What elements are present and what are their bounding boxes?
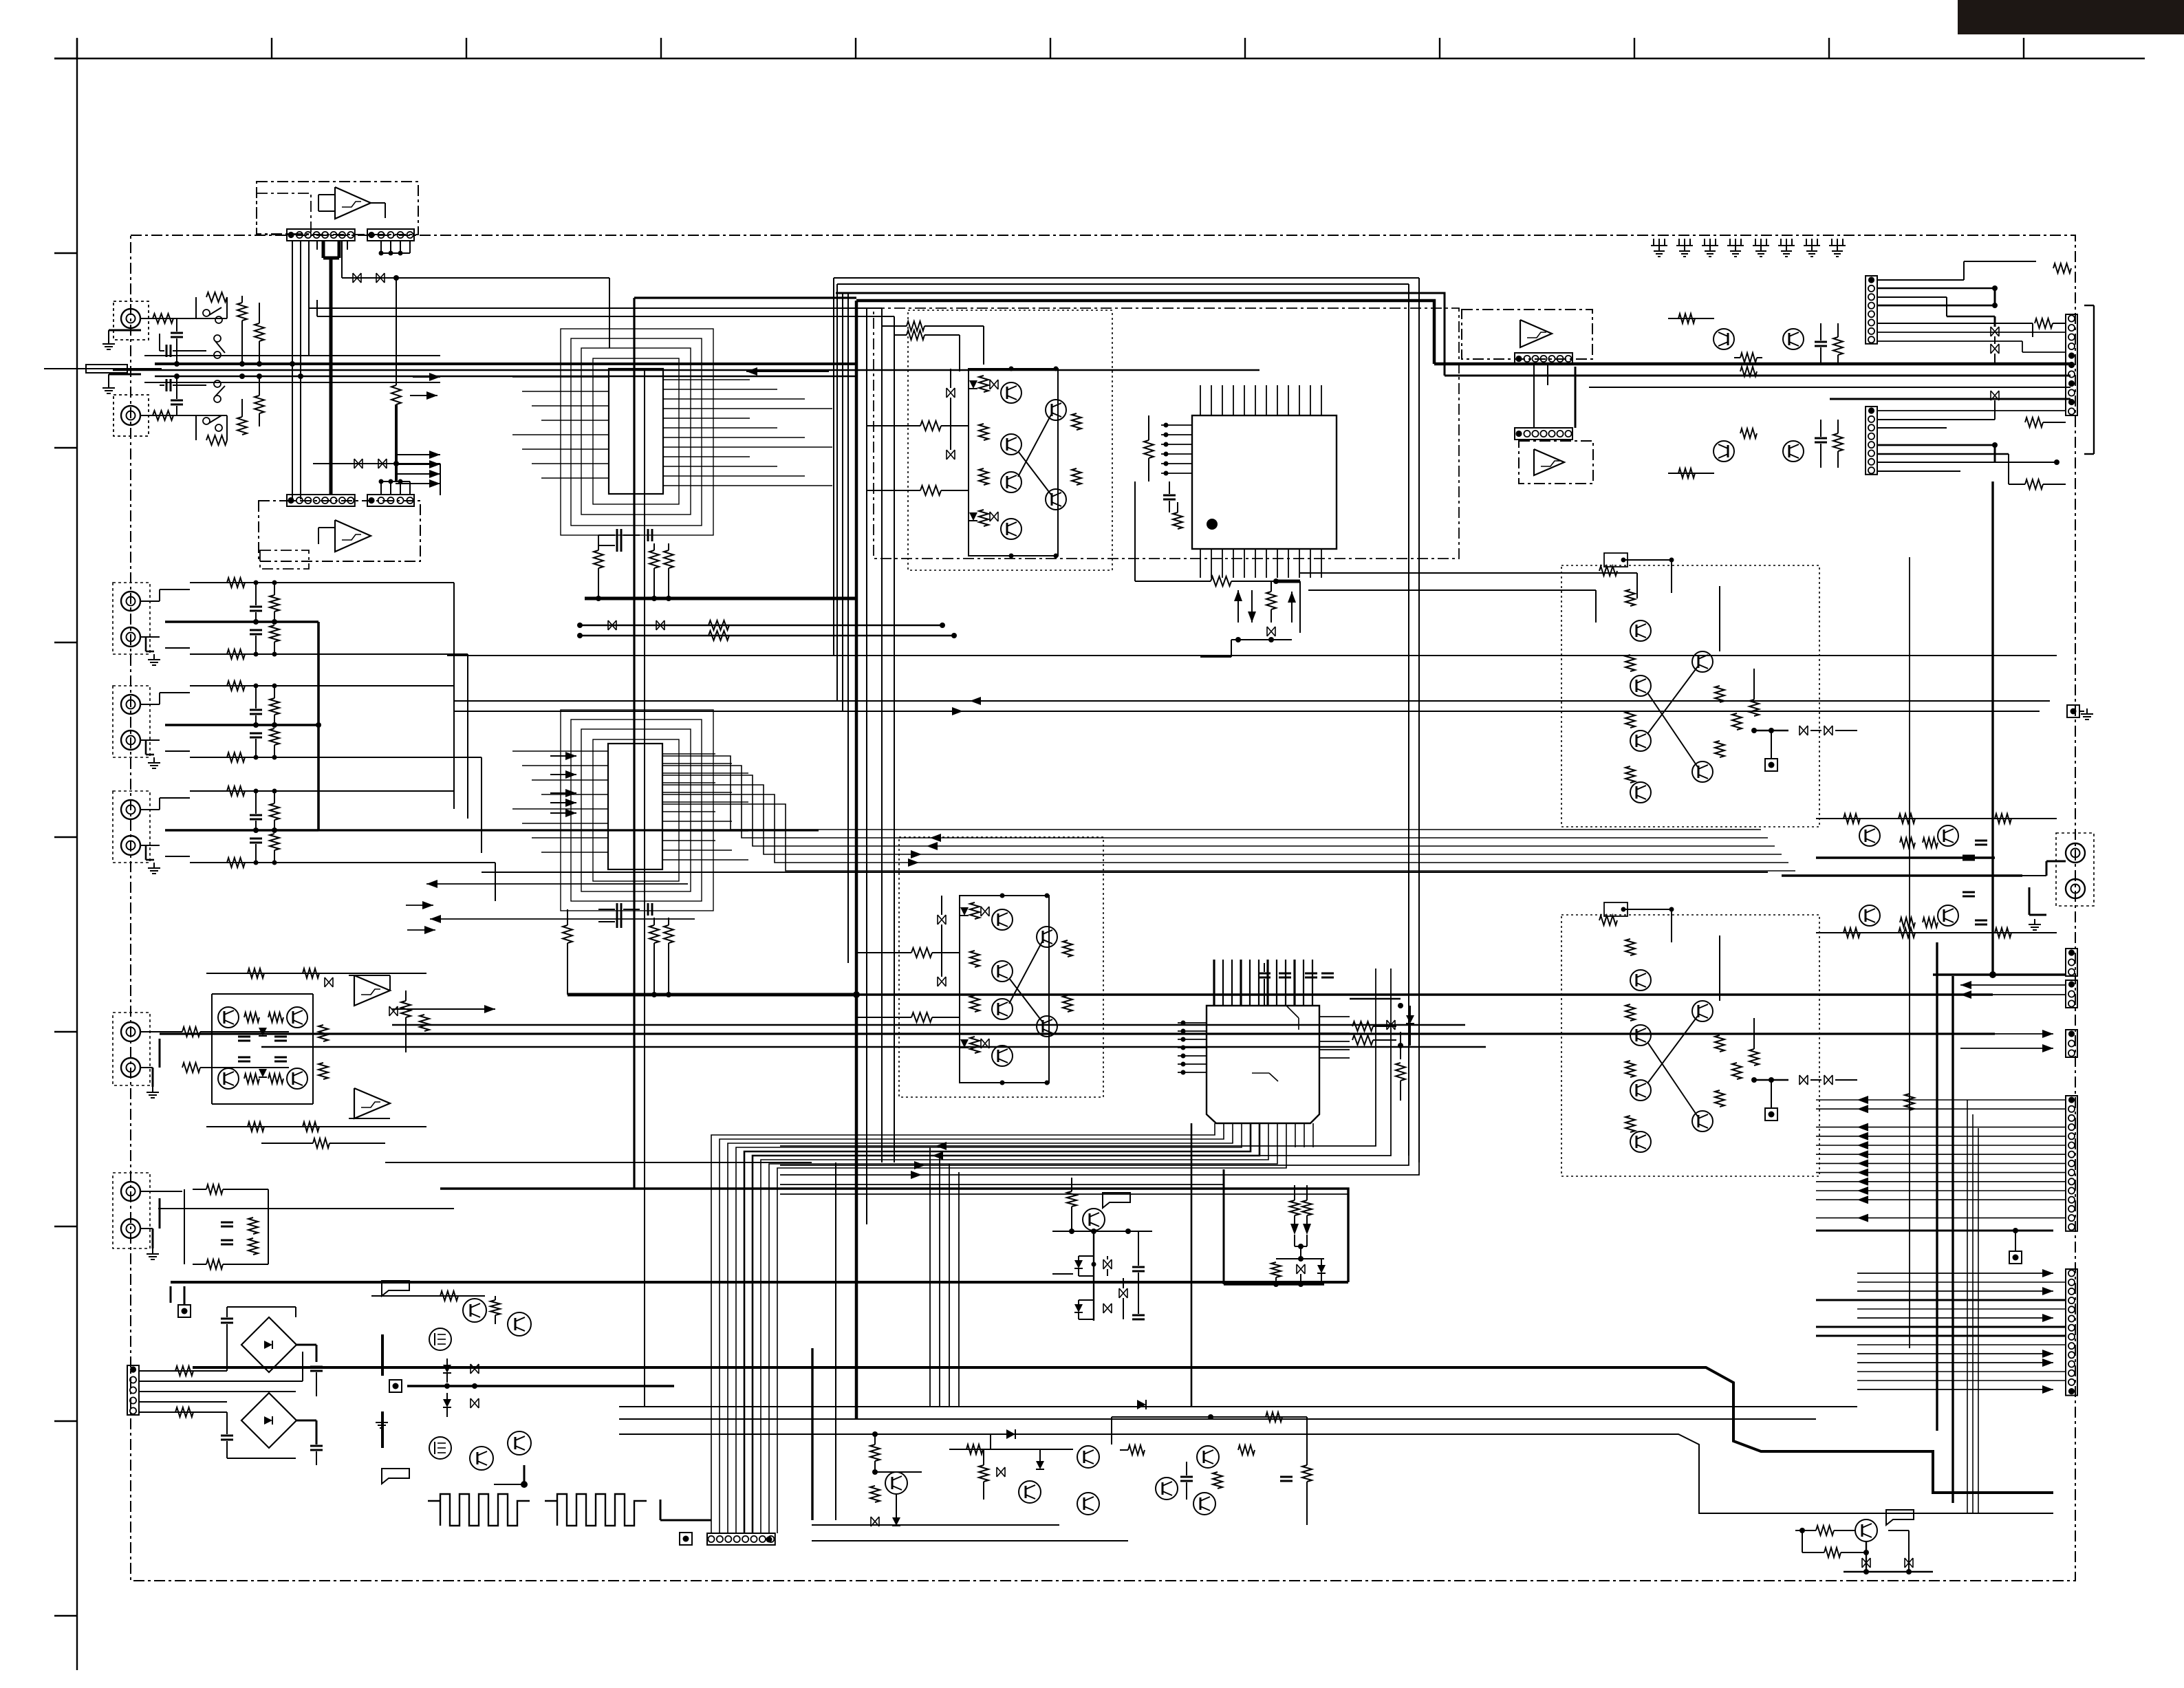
bus (633, 298, 635, 1189)
wire (1112, 1416, 1307, 1418)
pnp regulator Q901 (463, 1299, 486, 1322)
ferrite bead FB901 (471, 1364, 479, 1374)
power amp block R (Q511-Q516) (899, 837, 1103, 1097)
capacitor C706 (1132, 1314, 1145, 1317)
capacitor C702 (1279, 973, 1291, 975)
switch S104 (214, 396, 221, 402)
transistor Q812 (1938, 825, 1958, 846)
square test point (680, 1533, 692, 1545)
connector CN815 (2066, 1269, 2077, 1396)
capacitor C811 (1963, 855, 1975, 857)
ground (152, 1248, 153, 1254)
resistor (227, 786, 245, 796)
relay flag RY902 (382, 1469, 409, 1484)
transistor Q803 (1713, 329, 1734, 349)
resistor R702 (1352, 1035, 1373, 1045)
square test point (2009, 1251, 2022, 1264)
resistor R821 (1816, 1526, 1834, 1535)
wire (144, 355, 440, 356)
capacitor C701 (1258, 973, 1271, 975)
wire (292, 241, 293, 499)
ferrite bead FB911 (871, 1517, 879, 1526)
connector CN811 (2066, 949, 2077, 976)
tape input jacks J302 (113, 686, 150, 757)
resistor R707 (1271, 1262, 1281, 1277)
resistor R101 (153, 314, 173, 323)
wire (381, 1334, 384, 1376)
wire (1816, 1230, 2053, 1232)
diode D914 (1137, 1400, 1146, 1409)
resistor R915 (1128, 1445, 1145, 1455)
resistor R223 (248, 1218, 258, 1234)
bridge rectifier D902 (241, 1393, 296, 1448)
connector CN604 (367, 495, 414, 506)
wire (1866, 1541, 1867, 1572)
wire (158, 1208, 454, 1209)
resistor R801 (1740, 353, 1757, 363)
relay driver Q802 (1783, 441, 1804, 462)
capacitor C211 (238, 1036, 250, 1038)
connector CN814 (19p) (2066, 1096, 2077, 1231)
square test point (178, 1305, 191, 1317)
buffer module IC611 (1462, 310, 1592, 359)
resistor R813 (1900, 838, 1915, 847)
capacitor C103 (171, 332, 183, 334)
connector CN901 (127, 1365, 139, 1415)
ground (1653, 239, 1654, 246)
resistor R802 (1740, 367, 1757, 376)
wire (1434, 363, 2071, 366)
resistor R704 (1067, 1191, 1077, 1207)
title block (1958, 0, 2184, 34)
resistor R103 (206, 292, 227, 302)
zener D703 (1074, 1304, 1083, 1312)
video buffer module IC601 (257, 182, 418, 235)
ferrite bead FB301 (1267, 627, 1275, 636)
ferrite bead FB703 (1103, 1303, 1112, 1313)
resistor (270, 698, 279, 715)
transistor Q204 (287, 1068, 307, 1089)
phono jack J202 (113, 1173, 150, 1248)
resistor R219 (420, 1015, 429, 1031)
antenna plug P101 (86, 368, 162, 369)
wire (567, 993, 856, 997)
wire (309, 307, 882, 309)
transistor Q916 (1197, 1446, 1219, 1468)
speaker terminal CN803 (2066, 314, 2077, 415)
capacitor (250, 814, 262, 816)
mosfet Q903 (429, 1328, 451, 1350)
wire (1223, 1169, 1225, 1284)
resistor R609 (396, 278, 397, 385)
wire (812, 1540, 1128, 1541)
resistor R805 (2035, 318, 2053, 328)
resistor R912 (870, 1486, 880, 1502)
resistor (270, 595, 279, 612)
resistor R814 (1900, 918, 1915, 927)
regulator Q902 (508, 1312, 531, 1336)
op-amp IC204 (354, 1088, 390, 1118)
resistor R917 (1213, 1472, 1222, 1489)
connector CN602 (367, 229, 414, 241)
ferrite bead FB202 (656, 620, 664, 630)
zener D702 (1074, 1260, 1083, 1268)
bus (482, 872, 1768, 873)
capacitor C802 (1815, 437, 1827, 440)
wire (494, 1484, 523, 1485)
capacitor C203 (616, 539, 618, 552)
switch S102 (203, 418, 210, 424)
phono jack J201 (113, 1013, 150, 1085)
wire (1178, 1022, 1207, 1024)
connector CN813 (2066, 1030, 2077, 1057)
input selector IC202 (608, 744, 662, 869)
bus (619, 1406, 1857, 1407)
wire (329, 358, 333, 495)
resistor R202 (649, 550, 659, 568)
capacitor C812 (1975, 840, 1987, 842)
resistor R703 (1396, 1063, 1405, 1081)
wire (322, 241, 325, 258)
transistor Q804 (1713, 441, 1734, 462)
resistor R913 (966, 1444, 983, 1454)
bus (780, 1184, 1224, 1185)
connector CN911 (707, 1533, 775, 1545)
resistor R212 (182, 1063, 200, 1072)
ferrite bead FB803 (1991, 391, 1999, 400)
capacitor (250, 709, 262, 711)
capacitor C904 (310, 1445, 323, 1447)
capacitor C204 (616, 903, 618, 916)
heatsink HS901 (428, 1494, 530, 1526)
wire (512, 750, 608, 752)
wire (580, 625, 942, 626)
wire (1994, 288, 1996, 305)
wire (1547, 365, 1548, 385)
wire (206, 973, 426, 974)
capacitor C705 (1132, 1266, 1145, 1268)
transistor Q914 (1077, 1493, 1099, 1515)
ground (2034, 919, 2035, 924)
resistor R705 (1290, 1200, 1299, 1215)
ferrite bead FB821 (1862, 1558, 1870, 1568)
resistor (270, 803, 279, 820)
capacitor C902 (221, 1435, 233, 1437)
ground (381, 1417, 382, 1422)
wire (165, 829, 318, 832)
wire (227, 1306, 296, 1308)
resistor R218 (401, 1001, 411, 1017)
wire (165, 724, 318, 726)
wire (1276, 580, 1300, 583)
resistor (227, 649, 245, 659)
diode D211 (259, 1028, 267, 1036)
driver block B (Q531-Q536) (1561, 915, 1819, 1176)
ground (108, 338, 109, 344)
resistor R106 (237, 417, 247, 435)
connector CN601 (287, 229, 355, 241)
ferrite bead FB701 (1387, 1020, 1395, 1030)
resistor R916 (1238, 1445, 1255, 1455)
regulator Q906 (508, 1431, 531, 1455)
ferrite bead FB604 (378, 459, 387, 468)
capacitor C903 (310, 1366, 323, 1368)
resistor R911 (870, 1444, 880, 1461)
input selector IC201 (609, 369, 663, 494)
ferrite bead FB801 (1991, 327, 1999, 336)
ferrite bead FB702 (1103, 1259, 1112, 1269)
wire (1298, 1244, 1304, 1249)
resistor R303 (1211, 576, 1231, 586)
wire (1161, 424, 1192, 426)
zener D701 (1406, 1015, 1414, 1024)
wire (1816, 818, 2057, 819)
resistor R808 (2053, 263, 2071, 273)
resistor R901 (175, 1366, 193, 1376)
resistor (227, 578, 245, 587)
wire (453, 583, 455, 809)
aux input jacks J303 (113, 791, 150, 863)
transistor Q813 (1859, 905, 1880, 926)
resistor (227, 681, 245, 691)
bus (1418, 278, 1420, 1162)
resistor R211 (182, 1027, 200, 1037)
capacitor C213 (221, 1222, 233, 1224)
resistor R812 (1844, 928, 1860, 938)
transistor Q702 (1083, 1209, 1105, 1231)
switch S101 (203, 310, 210, 316)
wire (140, 600, 160, 602)
capacitor C801 (1815, 341, 1827, 343)
resistor R301 (1144, 440, 1154, 458)
resistor R903 (440, 1291, 458, 1301)
zener D903 (443, 1365, 451, 1373)
ferrite bead FB705 (1297, 1264, 1305, 1274)
bus (834, 277, 1419, 279)
ground (153, 654, 155, 660)
bus (193, 1367, 2053, 1493)
square test point (2067, 705, 2079, 717)
wire (212, 993, 313, 995)
main board outline (131, 235, 2075, 1581)
capacitor C201 (616, 529, 618, 541)
zener D904 (443, 1399, 451, 1407)
ferrite bead FB601 (353, 273, 361, 283)
headphone jack J801 (2056, 833, 2094, 906)
resistor R107 (255, 323, 264, 341)
wire (184, 1189, 185, 1264)
buffer module IC612 (1519, 441, 1593, 484)
wire (1052, 1273, 1073, 1275)
capacitor C104 (171, 400, 183, 402)
wire (407, 1385, 674, 1387)
ground (153, 863, 155, 868)
capacitor C212 (274, 1036, 287, 1038)
wire (140, 809, 160, 810)
resistor R217 (248, 1122, 264, 1132)
wire (140, 704, 160, 705)
ferrite bead FB211 (325, 977, 333, 987)
connector CN802 (1866, 407, 1877, 475)
capacitor C301 (1163, 495, 1176, 497)
resistor R221 (206, 1184, 223, 1194)
wire (426, 880, 437, 888)
connector CN612 (1515, 428, 1572, 440)
arrow (1234, 590, 1242, 601)
wire (1052, 1231, 1152, 1232)
resistor R804 (1833, 337, 1843, 355)
relay driver Q801 (1783, 329, 1804, 349)
op-amp IC203 (354, 975, 390, 1006)
resistor R706 (1302, 1200, 1312, 1215)
wire (380, 241, 382, 253)
transistor Q915 (1156, 1478, 1178, 1500)
resistor R803 (1740, 429, 1757, 438)
connector CN801 (1866, 276, 1877, 344)
resistor R201 (594, 550, 603, 568)
resistor R822 (1824, 1548, 1841, 1557)
protection transistor Q911 (885, 1472, 907, 1494)
wire (949, 1449, 1073, 1450)
heatsink HS902 (545, 1494, 647, 1526)
resistor R108 (255, 396, 264, 413)
bus (1418, 481, 1420, 1162)
signal processor IC301 (1192, 415, 1337, 549)
wire (341, 241, 343, 278)
arrow (1288, 592, 1296, 603)
connector CN611 (1515, 353, 1572, 365)
relay flag (1886, 1510, 1914, 1525)
wire (512, 376, 609, 378)
ferrite bead FB603 (354, 459, 363, 468)
switch S103 (214, 335, 221, 342)
resistor R204 (709, 620, 729, 630)
wire (1398, 1043, 1403, 1048)
wire (1857, 1096, 1868, 1104)
ferrite bead FB912 (997, 1467, 1005, 1477)
bus (1909, 557, 1910, 1348)
bus (811, 1348, 813, 1520)
AM antenna jack J102 (113, 395, 149, 436)
ferrite bead FB201 (608, 620, 616, 630)
wire (1877, 279, 1964, 281)
wire (662, 756, 1761, 830)
resistor R214 (244, 1074, 259, 1083)
capacitor C206 (616, 916, 618, 928)
transistor Q917 (1193, 1493, 1215, 1515)
bus (929, 1147, 931, 1407)
resistor R220 (313, 1138, 329, 1148)
zener D911 (892, 1517, 900, 1526)
ferrite bead FB822 (1905, 1558, 1913, 1568)
transistor Q912 (1019, 1481, 1041, 1503)
wire (317, 622, 320, 830)
resistor R203 (664, 550, 673, 568)
capacitor C101 (166, 345, 168, 357)
capacitor C704 (1321, 973, 1334, 975)
resistor R806 (2025, 418, 2043, 427)
wire (140, 318, 227, 319)
resistor R105 (237, 303, 247, 321)
amp input resistor pair (907, 321, 925, 331)
resistor R918 (1302, 1465, 1312, 1482)
capacitor (250, 606, 262, 608)
wire (371, 1295, 426, 1297)
connector CN812 (2066, 980, 2077, 1008)
FM antenna jack J101 (113, 301, 149, 340)
video buffer module IC602 (259, 501, 420, 561)
relay flag (1103, 1193, 1130, 1208)
capacitor C205 (647, 903, 649, 916)
muting transistor Q818 (1855, 1519, 1877, 1541)
zener D706 (1317, 1265, 1326, 1273)
relay flag RY901 (382, 1281, 409, 1296)
microcontroller IC701 (1207, 1006, 1319, 1123)
resistor R222 (206, 1259, 223, 1269)
ferrite bead FB802 (1991, 344, 1999, 354)
resistor (227, 858, 245, 867)
bus (440, 1189, 1348, 1282)
bridge rectifier D901 (241, 1317, 296, 1372)
resistor R102 (153, 411, 173, 420)
wire (875, 1433, 991, 1435)
resistor R902 (175, 1407, 193, 1417)
ground (152, 1087, 153, 1092)
resistor (227, 753, 245, 762)
power amp block L (Q501-Q506) (908, 310, 1112, 570)
resistor R216 (248, 969, 264, 978)
resistor R302 (1173, 512, 1182, 529)
ferrite bead FB602 (376, 273, 385, 283)
wire: right pins of IC701 (1319, 1016, 1350, 1017)
wire (313, 463, 440, 464)
resistor R205 (709, 631, 729, 640)
capacitor C911 (1180, 1476, 1193, 1478)
capacitor C901 (221, 1318, 233, 1320)
diode D704 (1290, 1224, 1299, 1235)
pnp regulator Q905 (470, 1447, 493, 1470)
capacitor C912 (1280, 1476, 1293, 1478)
wire (1877, 410, 2066, 411)
resistor R104 (206, 435, 227, 445)
ground (108, 382, 109, 388)
mosfet Q904 (429, 1437, 451, 1459)
bus (447, 655, 2057, 656)
transistor Q203 (218, 1068, 239, 1089)
diode D913 (1036, 1461, 1044, 1469)
resistor R215 (318, 1025, 328, 1041)
wire (2022, 875, 2046, 876)
capacitor C202 (647, 529, 649, 541)
wire (1300, 572, 1637, 574)
transistor Q811 (1859, 825, 1880, 846)
ferrite bead FB704 (1119, 1288, 1127, 1298)
ground (153, 757, 155, 763)
wire (1844, 1571, 1933, 1572)
resistor R904 (490, 1300, 500, 1315)
transistor Q202 (287, 1007, 307, 1028)
bus (160, 1032, 1995, 1035)
diode D912 (1006, 1429, 1015, 1439)
wire (1668, 318, 1714, 319)
square test point (389, 1380, 402, 1392)
resistor R208 (664, 925, 673, 943)
resistor R304 (1266, 592, 1276, 609)
ferrite bead FB212 (389, 1006, 398, 1016)
wire (165, 620, 318, 623)
wire (585, 597, 856, 600)
wire (691, 1520, 693, 1539)
